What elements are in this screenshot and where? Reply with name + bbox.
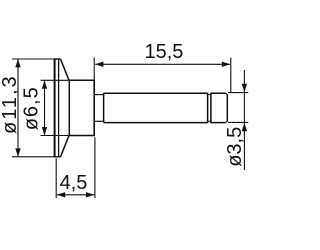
svg-text:ø11,3: ø11,3 <box>0 74 21 134</box>
svg-text:ø3,5: ø3,5 <box>224 127 246 167</box>
svg-text:15,5: 15,5 <box>145 41 184 63</box>
svg-text:4,5: 4,5 <box>60 172 88 194</box>
svg-text:ø6,5: ø6,5 <box>21 86 43 130</box>
